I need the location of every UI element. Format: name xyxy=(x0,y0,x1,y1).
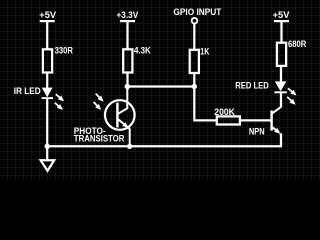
svg-text:4.3K: 4.3K xyxy=(134,45,151,55)
svg-text:+5V: +5V xyxy=(39,10,56,20)
wire +5V to R1 330R xyxy=(46,21,48,49)
transistor Q2 collector lead xyxy=(272,107,281,114)
svg-text:+3.3V: +3.3V xyxy=(117,10,139,20)
IR LED emission arrow 1 xyxy=(56,94,63,100)
junction node B xyxy=(192,84,197,89)
resistor R5 200K body (horizontal) xyxy=(217,116,240,124)
svg-text:330R: 330R xyxy=(55,46,74,56)
svg-text:NPN: NPN xyxy=(249,127,265,137)
wire IR LED cathode to ground node xyxy=(46,99,48,161)
IR LED D1 triangle xyxy=(42,88,53,98)
resistor R6 680R body xyxy=(277,43,286,66)
power +5V rail bar (left) xyxy=(40,20,55,22)
wire R6 to RED LED anode xyxy=(280,66,282,82)
junction node A (phototransistor collector / R3 net) xyxy=(125,84,130,89)
wire node A to GPIO node B xyxy=(127,85,194,87)
wire R2 to collector node A xyxy=(126,73,128,91)
svg-text:GPIO INPUT: GPIO INPUT xyxy=(173,7,221,17)
resistor R1 330R body xyxy=(43,49,52,72)
ground symbol xyxy=(41,160,55,171)
wire GPIO terminal to R4 1K xyxy=(193,24,195,51)
phototransistor Q1 body circle xyxy=(105,100,135,130)
svg-text:RED LED: RED LED xyxy=(235,80,269,90)
junction node Q1 emitter on ground rail xyxy=(127,144,132,149)
IR LED emission arrow 2 xyxy=(55,103,62,109)
RED LED D2 triangle xyxy=(275,81,287,91)
RED LED D2 cathode bar xyxy=(274,91,286,93)
phototransistor Q1 collector lead xyxy=(118,87,127,114)
photon arrow 2 into Q1 xyxy=(94,102,101,109)
IR LED D1 cathode bar xyxy=(42,97,54,99)
wire node B down to R5 row xyxy=(194,87,216,121)
phototransistor Q1 base bar xyxy=(116,103,118,128)
svg-text:IR LED: IR LED xyxy=(14,86,41,96)
transistor Q2 base bar xyxy=(270,111,272,131)
svg-text:TRANSISTOR: TRANSISTOR xyxy=(74,134,125,144)
wire +5V to R6 680R xyxy=(280,21,282,43)
wire Q2 emitter to ground rail xyxy=(47,134,281,147)
wire R4 to node B xyxy=(193,73,195,87)
phototransistor Q1 emitter wire to ground rail xyxy=(129,128,130,147)
photon arrow 1 into Q1 xyxy=(96,94,103,101)
junction node at ground rail xyxy=(45,144,50,149)
power +3.3V rail bar xyxy=(120,20,135,22)
svg-text:680R: 680R xyxy=(288,39,307,49)
resistor R2 4.3K body xyxy=(123,49,132,72)
wire RED LED cathode to Q2 collector xyxy=(280,92,282,107)
RED LED emission arrow 1 xyxy=(288,88,295,94)
wire +3.3V to R2 4.3K xyxy=(126,21,128,49)
resistor R4 1K body xyxy=(190,50,199,73)
wire R1 to IR LED anode xyxy=(46,73,48,89)
svg-text:+5V: +5V xyxy=(273,10,290,20)
GPIO input terminal circle xyxy=(192,18,198,24)
phototransistor Q1 emitter lead with arrow xyxy=(118,119,127,127)
RED LED emission arrow 2 xyxy=(287,97,294,104)
wire R5 to Q2 base xyxy=(241,119,271,121)
power +5V rail bar (right) xyxy=(274,20,289,22)
transistor Q2 emitter lead with arrow xyxy=(272,127,279,133)
svg-text:1K: 1K xyxy=(200,46,209,56)
